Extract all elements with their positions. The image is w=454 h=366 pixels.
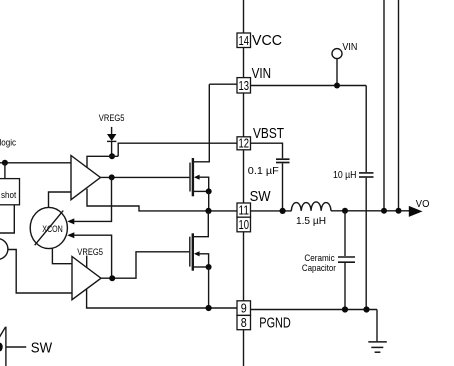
wire bootstrap cap to SW bbox=[282, 163, 284, 211]
svg-text:VBST: VBST bbox=[253, 125, 284, 142]
arrowhead into XCON (upper) bbox=[67, 218, 74, 224]
wire logic node down to one-shot box bbox=[4, 163, 6, 179]
svg-text:Capacitor: Capacitor bbox=[302, 263, 337, 274]
wire output cap top lead bbox=[344, 211, 346, 256]
wire one-shot bottom exiting left bbox=[0, 205, 14, 233]
junction logic node bbox=[2, 160, 8, 166]
wire output cap to PGND bbox=[344, 263, 346, 310]
transistor Q1 high-side MOSFET bbox=[193, 84, 209, 162]
svg-text:shot: shot bbox=[1, 190, 16, 201]
capacitor C2 ceramic output bbox=[338, 256, 355, 258]
wire SW from pin 11 bbox=[251, 210, 292, 212]
wire XCON bottom to lower driver input bbox=[52, 248, 71, 264]
pin 14 box bbox=[237, 33, 251, 48]
pin 10 box bbox=[237, 217, 251, 232]
arrowhead VO output bbox=[409, 206, 423, 217]
wire PGND to ground bbox=[376, 310, 378, 342]
wire upper driver return to SW bbox=[87, 189, 237, 211]
junction SW rail at Q1 bbox=[205, 208, 211, 214]
diode D1 from VREG5 bbox=[111, 127, 113, 134]
svg-text:14: 14 bbox=[239, 33, 250, 48]
XCON diagonal bbox=[35, 211, 64, 246]
junction Q1 source bbox=[206, 188, 212, 194]
wire Q1 drain to pin 13 bbox=[209, 83, 237, 85]
svg-text:1.5 µH: 1.5 µH bbox=[296, 216, 326, 227]
op-amp U1 upper gate driver bbox=[71, 156, 100, 200]
wire XCON top to upper driver input bbox=[49, 192, 72, 208]
wire upper driver supply rail bbox=[87, 156, 118, 168]
pin 9 box bbox=[237, 301, 251, 316]
wire node to pin 12 VBST bbox=[118, 143, 237, 156]
wire upper driver output bbox=[100, 176, 189, 178]
wire PGND rail from pin 9 bbox=[251, 309, 378, 311]
svg-text:Ceramic: Ceramic bbox=[304, 253, 334, 264]
svg-text:VIN: VIN bbox=[252, 65, 272, 82]
junction PGND at input cap bbox=[363, 306, 369, 312]
svg-text:8: 8 bbox=[241, 315, 247, 330]
wire SW stub (bottom left) bbox=[6, 346, 26, 348]
svg-text:SW: SW bbox=[31, 339, 53, 356]
transistor Q2 low-side MOSFET bbox=[193, 211, 208, 237]
junction VIN rail bbox=[334, 83, 340, 89]
wire VIN terminal drop bbox=[336, 59, 338, 86]
junction upper gate node bbox=[109, 174, 115, 180]
svg-text:VREG5: VREG5 bbox=[99, 113, 125, 124]
wire pin 12 to bootstrap cap bbox=[251, 143, 283, 158]
arrowhead into XCON (lower) bbox=[67, 232, 74, 238]
junction VO at rail B bbox=[396, 208, 402, 214]
junction SW / bootstrap bbox=[280, 208, 286, 214]
wire VIN rail from pin 13 bbox=[251, 85, 367, 87]
wire right rail B bbox=[398, 0, 400, 211]
junction VO at output cap bbox=[342, 208, 348, 214]
svg-text:10 µH: 10 µH bbox=[333, 170, 357, 181]
wire terminal to lower driver input bbox=[8, 250, 72, 294]
wire Q2 source to PGND rail bbox=[208, 267, 210, 308]
svg-text:12: 12 bbox=[239, 136, 250, 151]
junction lower gate node bbox=[109, 275, 115, 281]
wire Q1 source to SW rail bbox=[208, 191, 210, 211]
pin 13 box bbox=[237, 78, 251, 93]
svg-text:VIN: VIN bbox=[342, 42, 357, 53]
pin 11 box bbox=[237, 203, 251, 217]
block one-shot (partial at edge) bbox=[0, 179, 20, 205]
svg-text:10: 10 bbox=[239, 217, 250, 232]
wire input cap down to PGND bbox=[365, 178, 367, 310]
junction Q2 source bbox=[206, 264, 212, 270]
svg-text:logic: logic bbox=[0, 138, 16, 149]
op-amp U2 lower gate driver bbox=[72, 257, 101, 300]
pin 12 box bbox=[237, 137, 251, 150]
svg-text:0.1 µF: 0.1 µF bbox=[248, 166, 279, 177]
wire upper gate to XCON arrow 1 bbox=[74, 177, 112, 221]
terminal (partial circle, left edge) bbox=[0, 239, 8, 260]
svg-text:VO: VO bbox=[416, 199, 430, 210]
svg-text:VCC: VCC bbox=[252, 32, 282, 49]
svg-text:13: 13 bbox=[239, 78, 250, 93]
inductor L1 1.5 uH bbox=[291, 202, 331, 211]
IC boundary line segments bbox=[243, 0, 245, 33]
svg-text:9: 9 bbox=[241, 301, 247, 316]
pin 8 box bbox=[237, 315, 251, 329]
junction PGND rail at Q2 bbox=[206, 305, 212, 311]
wire right rail A bbox=[383, 0, 385, 211]
junction VREG5/VBST node bbox=[109, 153, 115, 159]
wire VREG5 to lower driver supply bbox=[86, 256, 88, 268]
wire lower driver output bbox=[101, 252, 189, 278]
terminal VIN (circle) bbox=[332, 49, 342, 59]
svg-text:11: 11 bbox=[239, 203, 250, 218]
ground bbox=[368, 341, 387, 343]
wire lower driver return to PGND bbox=[87, 289, 237, 308]
svg-text:VREG5: VREG5 bbox=[77, 247, 103, 258]
transistor fragment (bottom left, cut off) bbox=[5, 327, 7, 366]
capacitor C1 0.1 uF bootstrap bbox=[276, 158, 290, 160]
svg-text:PGND: PGND bbox=[259, 315, 291, 332]
junction PGND at output cap bbox=[342, 306, 348, 312]
wire logic input to upper driver bbox=[0, 162, 71, 164]
capacitor 10 uH input element bbox=[359, 172, 374, 174]
wire VO rail bbox=[331, 210, 410, 212]
junction VO at rail A bbox=[381, 208, 387, 214]
svg-text:SW: SW bbox=[250, 188, 272, 205]
wire VIN rail down to input cap bbox=[365, 86, 367, 173]
svg-text:XCON: XCON bbox=[42, 224, 63, 235]
circle XCON block bbox=[30, 207, 67, 248]
wire lower gate to XCON arrow 2 bbox=[74, 235, 112, 278]
